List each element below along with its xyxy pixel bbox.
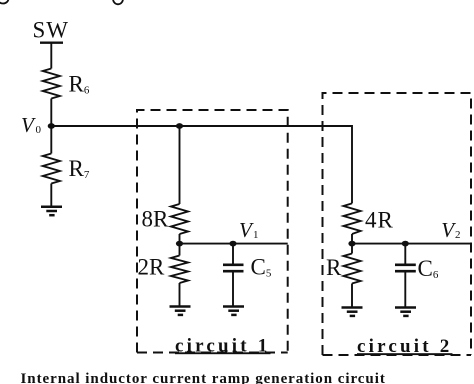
ground under R: [342, 308, 363, 316]
wire 2R to ground: [179, 283, 181, 306]
wire C5 to ground: [232, 272, 234, 306]
svg-text:V: V: [441, 218, 456, 242]
circuit 1 dashed box: [137, 110, 288, 353]
resistor R6: [43, 69, 60, 99]
svg-text:SW: SW: [33, 18, 70, 43]
resistor R7: [43, 154, 60, 184]
svg-text:circuit 2: circuit 2: [357, 336, 452, 357]
wire node to V2 output: [352, 243, 471, 245]
wire node to V1: [180, 243, 288, 245]
resistor 8R: [171, 204, 188, 234]
wire R6 to node V0: [50, 99, 52, 127]
node V0 junction dot: [48, 123, 55, 129]
ground under C5: [223, 307, 244, 315]
wire V0 horizontal bus to circuit 2: [51, 126, 352, 203]
wire 8R to node: [179, 234, 181, 244]
ground under C6: [395, 308, 416, 316]
node divider dot circuit 1: [176, 241, 183, 247]
capacitor C5: [223, 265, 244, 271]
cut-off text descender (top left): [0, 0, 9, 4]
svg-text:V: V: [21, 113, 36, 137]
node C6 dot: [402, 241, 409, 247]
capacitor C6: [395, 265, 416, 271]
svg-text:2R: 2R: [138, 254, 166, 279]
wire node to R: [351, 244, 353, 254]
svg-text:Internal inductor current ramp: Internal inductor current ramp generatio…: [21, 371, 386, 384]
circuit 2 dashed bottom edge: [323, 354, 472, 356]
resistor 4R: [344, 203, 361, 234]
svg-text:1: 1: [253, 229, 259, 241]
svg-text:8R: 8R: [142, 206, 170, 231]
wire V0 down to R7: [50, 126, 52, 154]
ground under 2R: [170, 307, 191, 315]
svg-text:0: 0: [36, 124, 42, 136]
node V1 dot: [229, 241, 236, 247]
svg-text:R: R: [326, 255, 342, 280]
circuit 2 dashed box: [323, 93, 472, 355]
svg-text:circuit 1: circuit 1: [175, 335, 270, 356]
ground under R7: [41, 207, 62, 215]
svg-text:2: 2: [455, 229, 461, 241]
wire SW terminal to R6: [50, 43, 52, 69]
wire node to 2R: [179, 244, 181, 256]
circuit 1 dashed bottom edge: [137, 352, 288, 354]
node divider dot circuit 2: [348, 241, 355, 247]
svg-text:V: V: [239, 218, 254, 242]
capacitor C5 wire from V1 node: [232, 244, 234, 264]
capacitor C6 wire from node: [404, 244, 406, 264]
wire junction down to 8R: [179, 126, 181, 204]
resistor R: [344, 254, 361, 284]
wire 4R to node: [351, 234, 353, 244]
junction dot on bus: [176, 123, 183, 129]
SW terminal bar: [40, 42, 63, 44]
wire R to ground: [351, 284, 353, 307]
svg-text:4R: 4R: [365, 208, 394, 233]
wire C6 to ground: [404, 272, 406, 307]
resistor 2R: [171, 256, 188, 284]
cut-off text descender (top middle): [113, 0, 123, 4]
wire R7 to ground: [50, 184, 52, 207]
